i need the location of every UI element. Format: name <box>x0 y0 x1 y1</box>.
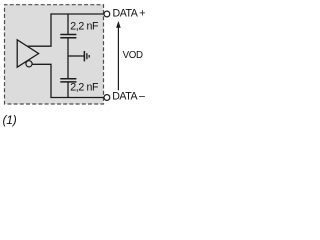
svg-text:2,2 nF: 2,2 nF <box>70 81 99 93</box>
svg-text:2,2 nF: 2,2 nF <box>70 21 99 33</box>
svg-text:(1): (1) <box>3 113 17 127</box>
svg-text:DATA +: DATA + <box>113 7 146 19</box>
svg-text:DATA –: DATA – <box>112 90 145 102</box>
svg-text:VOD: VOD <box>123 50 143 61</box>
